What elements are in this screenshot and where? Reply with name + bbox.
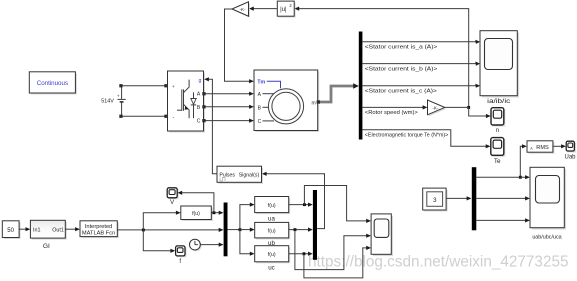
wire DC minus to bridge — [121, 115, 166, 117]
wire clock to bar1 — [200, 244, 220, 246]
svg-text:C: C — [258, 119, 262, 125]
wire uc output to bar2 and scope branch — [289, 253, 309, 255]
block constant 3 — [423, 188, 448, 211]
wire |u|2 input arrowhead — [294, 7, 299, 11]
wire 50 to GI — [19, 228, 26, 230]
svg-text:<Stator current is_b (A)>: <Stator current is_b (A)> — [365, 66, 438, 72]
svg-text:3: 3 — [433, 197, 437, 204]
svg-text:514V: 514V — [101, 99, 114, 105]
mux bar1 — [224, 203, 228, 257]
svg-text:https://blog.csdn.net/weixin_4: https://blog.csdn.net/weixin_42773255 — [308, 254, 569, 271]
clock block — [190, 239, 202, 251]
svg-text:-K-: -K- — [240, 7, 247, 12]
block constant 50 — [2, 221, 20, 239]
node junction on gain output — [467, 106, 470, 109]
wire branch to V display — [182, 193, 214, 213]
svg-text:-: - — [173, 114, 175, 120]
wire RMS input from uab line junction — [520, 146, 522, 177]
block Universal Bridge (IGBT inverter) — [168, 71, 206, 133]
svg-text:In1: In1 — [33, 228, 41, 234]
wire f(u) output to bar1 with V branch — [211, 212, 219, 214]
wire branch up to f(u) — [143, 213, 176, 230]
block f(u) ub — [255, 222, 291, 247]
display Te — [491, 138, 506, 165]
wire pulses to bridge g input — [209, 79, 218, 174]
wire gain1 output down to machine Tm input — [225, 9, 250, 81]
svg-text:Signal(s): Signal(s) — [239, 172, 260, 178]
block f(u) Fcn — [181, 206, 213, 221]
wire main line from IMF to mux bar1 — [117, 229, 219, 231]
wire DC plus to bridge — [121, 85, 166, 87]
gain -K- G2 on rotor speed — [428, 100, 447, 116]
wire electromagnetic torque to Te display — [362, 130, 486, 147]
display Uab — [564, 141, 576, 160]
block Pulses Signal(s) generator — [217, 166, 263, 184]
display f — [176, 246, 187, 265]
wire bridge A to machine A — [204, 93, 250, 95]
svg-text:RMS: RMS — [536, 145, 549, 151]
wire RMS to Uab display — [553, 145, 562, 147]
wire stator current is_b to scope — [362, 63, 476, 65]
svg-text:50: 50 — [7, 228, 14, 234]
svg-text:MATLAB Fcn: MATLAB Fcn — [82, 230, 115, 236]
wire uab line to scope (with junction to RMS) — [476, 176, 526, 178]
mux bar (uab/ubc/uca) — [472, 167, 477, 230]
svg-text:<Electromagnetic torque Te (N*: <Electromagnetic torque Te (N*m)> — [365, 133, 449, 139]
wire rotor speed to gain — [362, 106, 423, 108]
svg-text:Interpreted: Interpreted — [85, 224, 113, 230]
svg-text:Uab: Uab — [564, 155, 576, 161]
block Interpreted MATLAB Fcn — [80, 221, 119, 238]
wire ub output to bar2 and scope branch — [289, 229, 309, 231]
block Asynchronous Machine M1 — [254, 70, 319, 132]
svg-text:<Rotor speed (wm)>: <Rotor speed (wm)> — [365, 110, 418, 116]
svg-text:ia/ib/ic: ia/ib/ic — [487, 98, 511, 105]
block |u|2 math function U1 — [277, 1, 295, 18]
wire gain2 output to junction and n display — [445, 107, 487, 116]
svg-text:<Stator current is_a (A)>: <Stator current is_a (A)> — [365, 45, 438, 51]
svg-text:Pulses: Pulses — [219, 172, 235, 178]
svg-text:Continuous: Continuous — [37, 80, 68, 87]
wire feedback vertical from rotor-speed gain junction up to |u|2 block — [299, 9, 469, 108]
svg-text:GI: GI — [43, 243, 50, 250]
wire uca line to scope — [476, 219, 526, 221]
IGBT + diode icon inside bridge — [181, 89, 183, 110]
wire GI to Interpreted MATLAB Fcn — [65, 228, 75, 230]
svg-text:|u|: |u| — [280, 7, 287, 13]
wire machine m output bus (thick gray) to bus selector — [318, 86, 355, 102]
block RMS — [527, 141, 554, 154]
wire stator current is_c to scope — [362, 85, 476, 87]
svg-text:Te: Te — [494, 158, 501, 165]
svg-text:<Stator current is_c (A)>: <Stator current is_c (A)> — [365, 88, 437, 94]
svg-text:uc: uc — [268, 264, 275, 271]
block f(u) uc — [255, 246, 291, 272]
svg-text:+: + — [172, 84, 175, 89]
wire bridge B to machine B — [204, 106, 250, 108]
svg-text:n: n — [496, 128, 499, 134]
block f(u) ua — [255, 197, 291, 223]
svg-text:C: C — [197, 119, 201, 125]
wire ua output to bar2 and scope branch — [289, 204, 309, 206]
svg-text:f(u): f(u) — [268, 229, 276, 235]
svg-text:-K-: -K- — [432, 106, 439, 111]
bus selector bar — [359, 32, 363, 140]
mux bar2 — [313, 190, 317, 260]
gain -K- G1 (flipped, points left) — [232, 2, 250, 18]
subsystem GI — [30, 220, 66, 250]
display n — [491, 108, 505, 134]
block Continuous (powergui) — [29, 72, 77, 95]
svg-text:f(u): f(u) — [268, 203, 276, 209]
wire stator current is_a to scope — [362, 41, 476, 43]
svg-text:g: g — [198, 78, 201, 84]
wire bar1 output branching to three f(u) — [228, 229, 240, 231]
node port squares battery/bridge — [119, 84, 122, 87]
svg-text:ua: ua — [268, 216, 275, 223]
display V — [167, 188, 178, 206]
svg-text:Tm: Tm — [257, 79, 265, 85]
svg-text:m: m — [312, 100, 316, 106]
svg-text:f(u): f(u) — [268, 252, 276, 258]
wire branch down to f display — [143, 230, 171, 251]
scope uab/ubc/uca — [530, 167, 566, 240]
wire ubc line to scope — [476, 197, 526, 199]
wire bridge C to machine C — [204, 120, 250, 122]
wire constant 3 to mux bar — [446, 197, 467, 199]
svg-text:+: + — [117, 94, 120, 99]
svg-text:V: V — [170, 200, 174, 206]
svg-text:Out1: Out1 — [52, 228, 64, 234]
scope bottom middle — [371, 214, 393, 256]
DC source 514V battery — [101, 86, 125, 117]
svg-text:uab/ubc/uca: uab/ubc/uca — [532, 234, 561, 240]
wire |u|2 to gain1 — [254, 8, 278, 10]
wire bar2 output up to Pulses block — [266, 174, 325, 229]
scope ia/ib/ic — [480, 31, 519, 105]
svg-text:f(u): f(u) — [192, 211, 200, 217]
